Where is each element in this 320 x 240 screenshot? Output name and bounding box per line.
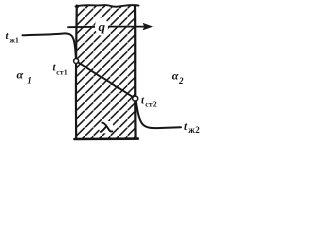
q arrow right segment — [108, 26, 145, 28]
q label halo — [95, 18, 108, 36]
q arrowhead — [143, 23, 153, 30]
wall hatching — [77, 6, 135, 139]
wall temperature profile diagonal — [78, 62, 133, 97]
q arrow left segment — [68, 26, 96, 28]
svg-text:q: q — [99, 19, 106, 34]
svg-text:1: 1 — [27, 76, 32, 86]
node t_st1 — [74, 59, 79, 64]
wall bottom edge — [75, 137, 138, 140]
svg-text:ст1: ст1 — [56, 67, 68, 76]
svg-text:ж2: ж2 — [188, 125, 200, 135]
lambda label halo — [99, 121, 114, 134]
svg-text:α: α — [17, 68, 24, 82]
svg-text:2: 2 — [178, 76, 184, 86]
lambda label — [102, 123, 112, 132]
svg-text:ст2: ст2 — [145, 99, 157, 108]
wall left edge — [75, 6, 78, 139]
wall top edge — [76, 5, 139, 7]
svg-text:ж1: ж1 — [10, 36, 19, 45]
svg-text:α: α — [172, 68, 179, 82]
t_zh1 temperature line — [23, 33, 76, 57]
node t_st2 — [133, 96, 138, 101]
t_zh2 temperature line — [136, 101, 181, 128]
wall right edge — [134, 6, 137, 139]
